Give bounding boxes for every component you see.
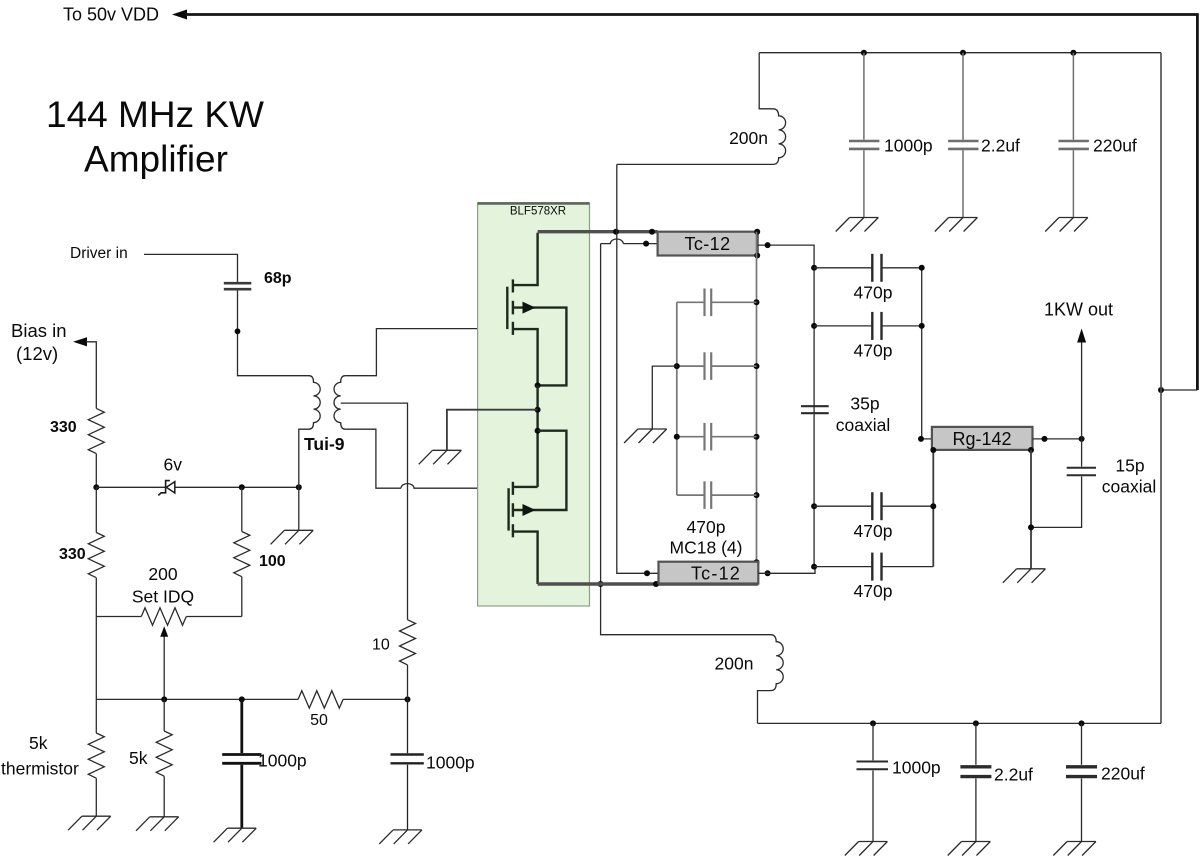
junction bias node middle <box>239 484 245 490</box>
junction drain line / 200n feed <box>613 229 619 235</box>
svg-text:470p: 470p <box>854 283 893 303</box>
ground 5k <box>136 817 179 831</box>
svg-text:50: 50 <box>310 712 328 729</box>
wire pot left leg down to bottom bus <box>95 617 97 700</box>
capacitor 1000p bias <box>222 699 261 828</box>
svg-text:1000p: 1000p <box>258 751 307 771</box>
wire 10 ohm to bypass node <box>407 665 409 700</box>
wire driver input to coupling cap <box>144 254 238 282</box>
wire bottom supply bus <box>758 722 1162 724</box>
junction shield rail row3 <box>754 434 760 440</box>
coax stub Tc-12 upper box <box>658 232 758 256</box>
wire secondary center tap down to 10 ohm <box>341 403 408 620</box>
coax Rg-142 box <box>932 427 1033 450</box>
capacitor 470p MC18 row2 <box>677 352 757 380</box>
transistor Q2 source lead <box>513 486 538 488</box>
svg-text:144 MHz KW: 144 MHz KW <box>46 94 264 135</box>
capacitor 470p row2 <box>814 312 922 340</box>
capacitor 68p <box>224 283 252 289</box>
wire top VDD rail <box>185 15 1197 391</box>
junction top bus cap3 <box>1070 50 1076 56</box>
transistor Q2 channel dashes <box>512 482 514 538</box>
transistor Q1 drain lead <box>513 233 538 285</box>
junction upper stub lower pin <box>643 241 649 247</box>
junction Rg-142 right pin <box>1042 436 1048 442</box>
junction MC18 left rail row2 <box>674 363 680 369</box>
inductor 200n lower <box>758 635 784 724</box>
junction Q2 body node <box>535 428 541 434</box>
capacitor 470p MC18 row3 <box>677 423 757 451</box>
wire Q1 drain line (thick) <box>538 230 658 233</box>
capacitor 2.2uf bottom <box>960 723 991 841</box>
resistor 100 <box>234 532 250 577</box>
ground thermistor <box>68 816 111 830</box>
junction 10-ohm node <box>405 696 411 702</box>
junction bottom bus cap3 <box>1079 720 1085 726</box>
svg-text:1KW out: 1KW out <box>1044 300 1113 320</box>
svg-text:470p: 470p <box>854 581 893 601</box>
wire cross riser to lower drain <box>601 244 771 635</box>
junction bias node left <box>93 484 99 490</box>
potentiometer 200 Set IDQ track <box>96 616 141 618</box>
svg-text:2.2uf: 2.2uf <box>981 136 1020 156</box>
junction bottom bus cap2 <box>973 720 979 726</box>
junction right rail row2 <box>919 323 925 329</box>
capacitor 470p row3 <box>814 492 933 520</box>
wire Q2 drain line (thick) <box>538 582 759 585</box>
svg-text:Tui-9: Tui-9 <box>304 434 345 454</box>
svg-text:220uf: 220uf <box>1093 136 1137 156</box>
wire MC18 left rail <box>676 302 678 495</box>
junction left rail row4 <box>811 564 817 570</box>
arrowhead bias input <box>73 337 87 346</box>
ground 2.2uf bottom <box>948 842 991 856</box>
transistor Q2 body arrow <box>523 504 536 516</box>
capacitor 220uf top <box>1059 53 1089 218</box>
IC BLF578XR outline <box>478 203 590 606</box>
junction shield / 15p <box>1028 524 1034 530</box>
wire down to R100 <box>241 487 243 531</box>
wire hop upper stub pin over riser <box>601 239 624 244</box>
potentiometer wiper arrow <box>160 626 168 699</box>
junction cross riser / lower drain line <box>598 581 604 587</box>
svg-text:2.2uf: 2.2uf <box>994 765 1033 785</box>
wire Rg-142 shield left drop <box>932 450 934 567</box>
wire secondary bottom to lower FET gate <box>345 429 401 488</box>
svg-text:330: 330 <box>59 546 86 563</box>
capacitor 470p MC18 row1 <box>677 289 757 317</box>
wire Rg-142 shield to ground <box>1030 450 1032 569</box>
svg-text:Driver in: Driver in <box>70 245 128 262</box>
ground 1000p input bypass <box>379 830 422 844</box>
svg-text:6v: 6v <box>164 455 183 475</box>
junction left rail row1 <box>811 265 817 271</box>
wire bias node to ground <box>298 487 300 530</box>
transistor Q1 body lead <box>513 308 567 386</box>
svg-text:MC18 (4): MC18 (4) <box>670 538 743 558</box>
capacitor 220uf bottom <box>1066 723 1097 841</box>
svg-text:Bias in: Bias in <box>11 320 67 341</box>
capacitor 1000p bottom <box>857 723 889 841</box>
svg-text:1000p: 1000p <box>884 136 933 156</box>
junction shield drop row3 <box>930 503 936 509</box>
junction right rail row1 <box>919 265 925 271</box>
ground transformer / bias <box>271 530 314 544</box>
junction lower stub right pin <box>765 570 771 576</box>
wire right rail upper <box>922 268 932 439</box>
junction top bus cap2 <box>960 50 966 56</box>
junction Q1 source/body <box>535 382 541 388</box>
wire right VDD distribution rail <box>1160 53 1162 724</box>
resistor 330 lower <box>88 533 104 578</box>
wire bias feed down to R330 upper <box>86 342 96 409</box>
junction Rg-142 left pin <box>918 436 924 442</box>
wire R330 to bias node <box>95 454 97 488</box>
junction Rg-142 shield right corner <box>1028 447 1034 453</box>
svg-text:470p: 470p <box>854 521 893 541</box>
transistor Q1 upper FET gate bar <box>506 287 508 329</box>
wire 50 to 10-ohm node <box>343 698 407 700</box>
svg-text:Amplifier: Amplifier <box>84 139 228 180</box>
junction upper stub bottom-right corner <box>754 253 760 259</box>
svg-text:To 50v VDD: To 50v VDD <box>63 5 159 25</box>
junction output node <box>1079 436 1085 442</box>
svg-text:68p: 68p <box>264 270 292 287</box>
svg-text:1000p: 1000p <box>426 753 475 773</box>
capacitor 470p MC18 row4 <box>677 481 757 509</box>
capacitor 470p row4 <box>814 553 933 581</box>
svg-text:Tc-12: Tc-12 <box>691 564 741 584</box>
ground FET source <box>419 450 462 464</box>
svg-text:470p: 470p <box>687 517 726 537</box>
ground 1000p bias <box>214 828 257 842</box>
ground Rg-142 shield <box>1003 569 1046 583</box>
transistor Q1 body arrow <box>523 302 536 314</box>
svg-text:(12v): (12v) <box>16 343 58 364</box>
resistor 5k thermistor <box>88 699 104 816</box>
capacitor 470p row1 <box>814 254 922 282</box>
wire VDD rail jog to distribution rail <box>1161 389 1197 391</box>
transistor Q1 source lead <box>513 329 538 385</box>
arrowhead 1KW out <box>1077 329 1086 343</box>
svg-text:Tc-12: Tc-12 <box>684 234 730 254</box>
wire Rg-142 right pin <box>1033 438 1082 440</box>
capacitor 15p coaxial <box>1031 439 1096 528</box>
wire harmonic filter left rail <box>813 268 815 567</box>
svg-text:BLF578XR: BLF578XR <box>510 206 566 218</box>
wire 6v zener rail <box>96 486 298 488</box>
resistor 10 <box>400 620 416 665</box>
transformer Tui-9 primary winding <box>309 376 320 430</box>
coax stub Tc-12 lower box <box>659 562 759 584</box>
svg-text:10: 10 <box>372 637 390 654</box>
junction VDD rail / right distribution rail <box>1158 387 1164 393</box>
svg-text:coaxial: coaxial <box>1102 477 1156 497</box>
wire primary bottom to ground node <box>299 429 309 487</box>
svg-text:220uf: 220uf <box>1101 764 1145 784</box>
svg-text:35p: 35p <box>850 394 879 414</box>
junction left rail row3 <box>811 503 817 509</box>
wire hop lower gate over center tap <box>401 484 507 489</box>
junction shield rail at lower stub <box>754 559 760 565</box>
svg-text:200: 200 <box>148 564 177 584</box>
svg-text:coaxial: coaxial <box>836 415 890 435</box>
transistor Q2 drain lead <box>513 532 538 584</box>
wire shield rail between stubs <box>756 232 758 563</box>
junction lower drain line <box>653 581 659 587</box>
wire down to R330 lower <box>95 487 97 532</box>
junction upper stub right pin <box>765 242 771 248</box>
svg-text:5k: 5k <box>29 733 48 753</box>
zener diode 6v <box>158 481 175 496</box>
junction MC18 left rail row3 <box>674 434 680 440</box>
ground 220uf top <box>1045 218 1088 232</box>
transistor Q2 lower FET gate bar <box>507 488 509 530</box>
wire upper stub lower pin <box>623 243 657 245</box>
wire R100 to pot line <box>241 577 243 617</box>
capacitor 1000p input bypass <box>391 699 424 830</box>
wire Q1 source to Q2 source rail <box>536 385 538 487</box>
svg-text:1000p: 1000p <box>892 758 941 778</box>
capacitor 35p coaxial <box>801 406 829 413</box>
svg-text:200n: 200n <box>715 654 754 674</box>
capacitor 2.2uf top <box>948 53 978 218</box>
ground 220uf bottom <box>1053 842 1096 856</box>
transformer Tui-9 secondary winding <box>334 376 345 430</box>
transistor Q2 body lead <box>513 431 567 510</box>
resistor 50 <box>298 691 343 708</box>
resistor 5k <box>156 699 172 816</box>
wire bottom-left bias bus <box>96 698 298 700</box>
wire top supply bus <box>759 52 1161 54</box>
wire 68p to transformer primary top <box>238 290 310 375</box>
svg-text:thermistor: thermistor <box>1 759 79 779</box>
wire upper stub right pin <box>758 245 814 268</box>
ground 1000p top <box>836 218 879 232</box>
junction shield rail row2 <box>754 363 760 369</box>
junction Rg-142 shield left corner <box>930 447 936 453</box>
junction lower stub left pin <box>644 570 650 576</box>
wire external source ground <box>447 410 538 451</box>
inductor 200n upper <box>617 53 786 165</box>
wire top feed riser <box>617 164 659 573</box>
svg-text:Set IDQ: Set IDQ <box>132 587 194 607</box>
ground 1000p bottom <box>845 842 888 856</box>
svg-text:15p: 15p <box>1115 456 1144 476</box>
junction 1000p / bus <box>239 696 245 702</box>
svg-text:330: 330 <box>50 419 77 436</box>
wire secondary top to upper FET gate <box>345 329 505 376</box>
ground MC18 <box>624 429 667 443</box>
wire R330 lower to pot line <box>95 578 97 617</box>
transistor Q1 channel dashes <box>512 279 514 335</box>
svg-text:Rg-142: Rg-142 <box>952 429 1011 449</box>
junction top bus cap1 <box>861 50 867 56</box>
junction shield rail row4 <box>754 492 760 498</box>
junction shield rail row1 <box>754 299 760 305</box>
wire lower stub right pin <box>758 567 815 574</box>
junction drain line at stub <box>649 229 655 235</box>
wire MC18 ground stem <box>652 366 677 429</box>
junction source rail / external ground <box>535 407 541 413</box>
svg-text:200n: 200n <box>729 128 768 148</box>
junction bottom bus cap1 <box>870 720 876 726</box>
junction bias node right <box>296 484 302 490</box>
capacitor 1000p top <box>849 53 879 218</box>
junction upper stub top-right corner <box>754 229 760 235</box>
wire output riser <box>1081 341 1083 439</box>
svg-text:5k: 5k <box>129 748 148 768</box>
resistor 330 upper <box>88 408 104 453</box>
junction wiper / bus <box>161 696 167 702</box>
svg-text:100: 100 <box>259 553 286 570</box>
ground 2.2uf top <box>935 218 978 232</box>
junction on input wire <box>235 328 241 334</box>
arrowhead VDD feed <box>172 10 187 20</box>
svg-text:470p: 470p <box>854 341 893 361</box>
junction left rail row2 <box>811 323 817 329</box>
